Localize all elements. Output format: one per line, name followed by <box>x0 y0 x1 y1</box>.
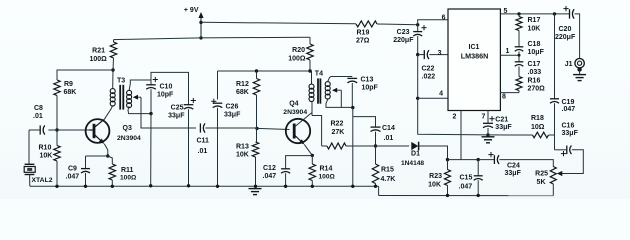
svg-text:4: 4 <box>439 91 443 98</box>
wire Q4 collector to T4 <box>295 101 312 126</box>
pin 1 label <box>506 48 510 55</box>
wire branch to C14 <box>353 117 376 127</box>
transformer T3 secondary coil <box>127 90 132 107</box>
wire Q4 emitter down <box>304 144 312 155</box>
svg-text:33μF: 33μF <box>224 112 241 119</box>
svg-text:Q3: Q3 <box>123 125 132 132</box>
svg-text:220μF: 220μF <box>393 37 414 44</box>
svg-text:10pF: 10pF <box>157 92 174 99</box>
wire T3 secondary top <box>129 80 151 90</box>
wire Q3 collector to T3 <box>104 106 112 120</box>
wire IC pin 8 to column <box>500 92 519 94</box>
svg-text:R12: R12 <box>236 81 249 88</box>
svg-text:100Ω: 100Ω <box>319 174 336 181</box>
wire R22 node to diode <box>380 145 409 147</box>
node Q4 emitter junction <box>311 154 314 157</box>
resistor R22 27K <box>322 121 380 150</box>
svg-text:T3: T3 <box>117 78 125 85</box>
pin 2 label <box>453 113 457 120</box>
svg-text:1N4148: 1N4148 <box>401 160 424 167</box>
resistor R17 10K <box>516 14 540 33</box>
wire detector bus <box>448 159 479 161</box>
node pin5-R17 junction <box>517 12 520 15</box>
svg-text:C12: C12 <box>263 165 276 172</box>
transformer T4 secondary coil <box>325 82 330 99</box>
capacitor C13 10pF <box>347 77 379 108</box>
svg-text:33μF: 33μF <box>562 130 579 137</box>
wire emitter to C12 <box>286 156 313 169</box>
wire rail step <box>378 186 380 195</box>
svg-text:C17: C17 <box>528 61 541 68</box>
wire Q3 emitter down <box>104 144 108 156</box>
node R23 junction <box>446 158 449 161</box>
svg-text:C14: C14 <box>382 125 395 132</box>
svg-text:R18: R18 <box>531 115 544 122</box>
node C13 bottom junction <box>351 106 354 109</box>
svg-text:C25: C25 <box>171 105 184 112</box>
potentiometer R25 5K <box>535 167 556 196</box>
ground symbol main rail <box>249 189 262 195</box>
capacitor C24 33uF <box>478 152 521 177</box>
resistor R13 10K <box>236 128 259 186</box>
transformer T3 primary coil <box>110 89 115 106</box>
svg-text:5K: 5K <box>537 179 546 186</box>
svg-text:C21: C21 <box>495 116 508 123</box>
svg-text:220μF: 220μF <box>555 34 576 41</box>
svg-text:R23: R23 <box>429 173 442 180</box>
node Q3 emitter junction <box>106 154 109 157</box>
svg-text:C15: C15 <box>460 174 473 181</box>
pin 5 label <box>504 8 508 15</box>
wire C10 node to rail <box>150 114 152 186</box>
capacitor C22 .022 <box>418 50 448 80</box>
node rail C13 <box>351 185 354 188</box>
wire T4 secondary top <box>328 77 347 82</box>
wire R21 to T3 primary top <box>112 58 115 89</box>
capacitor C11 .01 <box>197 123 258 155</box>
jack J1 <box>565 59 585 75</box>
capacitor C17 .033 <box>515 55 542 76</box>
capacitor C26 33uF <box>211 99 241 187</box>
svg-text:C8: C8 <box>34 105 43 112</box>
wire Q4 base <box>257 128 290 129</box>
diode D1 1N4148 <box>401 142 424 167</box>
node rail C12 <box>284 185 287 188</box>
tap arrow T4 <box>332 88 341 93</box>
svg-text:10K: 10K <box>40 153 53 160</box>
node rail C25 <box>187 184 190 187</box>
svg-text:R22: R22 <box>331 121 344 128</box>
wire pin5 node down to C19 <box>554 14 556 99</box>
wire IC pin 1 to column <box>500 54 520 57</box>
svg-text:10Ω: 10Ω <box>531 124 545 131</box>
pin 6 label <box>442 15 446 22</box>
transformer T4 label <box>315 71 323 78</box>
wire R18 to C19 column <box>549 134 555 136</box>
node rail R15 <box>374 185 377 188</box>
svg-text:7: 7 <box>482 113 486 120</box>
wire supply to R12 R20 <box>218 70 311 72</box>
svg-text:LM386N: LM386N <box>461 51 489 60</box>
wire IC pin 7 down <box>487 110 489 112</box>
transformer T3 label <box>117 78 125 85</box>
svg-text:R15: R15 <box>381 166 394 173</box>
resistor R20 100ohm <box>288 37 313 71</box>
svg-text:R10: R10 <box>39 145 52 152</box>
resistor R11 100ohm <box>108 156 137 186</box>
transformer T3 core <box>120 85 123 110</box>
wire bottom right ground rail <box>379 195 554 197</box>
transformer T4 core <box>318 78 320 103</box>
wire pin4 column <box>417 55 419 99</box>
svg-text:2N3904: 2N3904 <box>283 109 307 116</box>
node rail R14 <box>311 185 314 188</box>
svg-text:C24: C24 <box>507 163 520 170</box>
svg-text:C18: C18 <box>528 41 541 48</box>
svg-text:R25: R25 <box>535 170 548 177</box>
wire second supply rail <box>114 37 311 39</box>
wire R9 top <box>57 70 113 80</box>
node +9V supply arrow <box>184 7 204 38</box>
node C23 top junction <box>416 23 419 26</box>
svg-text:.047: .047 <box>562 106 576 113</box>
svg-text:.047: .047 <box>66 173 80 180</box>
capacitor C9 .047 <box>66 156 91 186</box>
svg-text:27Ω: 27Ω <box>356 37 370 44</box>
svg-text:XTAL2: XTAL2 <box>32 177 53 184</box>
resistor R10 10K <box>39 130 61 186</box>
resistor R9 68K <box>54 80 77 96</box>
svg-text:8: 8 <box>502 94 506 101</box>
wire C19 to C16 junction <box>554 135 556 150</box>
pin 4 label <box>439 91 443 98</box>
svg-text:C10: C10 <box>160 84 173 91</box>
node R9 junction <box>111 68 114 71</box>
svg-text:T4: T4 <box>315 71 323 78</box>
svg-text:100Ω: 100Ω <box>288 56 306 63</box>
node rail R13 <box>254 185 257 188</box>
svg-text:27K: 27K <box>332 129 345 136</box>
wire C24 to R25 <box>499 160 553 167</box>
capacitor C21 33uF <box>483 111 512 135</box>
resistor R18 10ohm <box>531 115 549 138</box>
wire bottom left ground rail <box>30 185 379 187</box>
capacitor C10 10pF <box>146 77 174 114</box>
svg-text:R14: R14 <box>320 166 333 173</box>
wire T4 primary top <box>311 71 312 84</box>
svg-text:C19: C19 <box>562 99 575 106</box>
crystal XTAL2 <box>24 164 53 184</box>
node rail R10 <box>55 185 58 188</box>
node Q3 base junction <box>55 128 58 131</box>
svg-text:R17: R17 <box>528 17 541 24</box>
wire R9 to base node <box>56 96 58 131</box>
node rail C10 <box>149 184 152 187</box>
node C15 junction <box>477 158 480 161</box>
wire R19 to C23 node <box>377 23 418 26</box>
svg-text:68K: 68K <box>64 89 77 96</box>
svg-text:100Ω: 100Ω <box>120 175 137 182</box>
svg-text:10K: 10K <box>528 26 541 33</box>
svg-text:.047: .047 <box>459 184 473 191</box>
svg-text:Q4: Q4 <box>289 101 298 108</box>
wire top +9V rail to R19 <box>201 22 356 24</box>
svg-text:33μF: 33μF <box>495 124 512 131</box>
wire emitter to C9 <box>86 155 108 157</box>
svg-text:C23: C23 <box>397 29 410 36</box>
node +9V top-rail junction <box>199 21 202 24</box>
resistor R12 68K <box>236 71 260 128</box>
wire C10 top to C25 <box>151 72 189 104</box>
svg-text:.01: .01 <box>384 135 394 142</box>
svg-text:33μF: 33μF <box>168 113 185 120</box>
ground at C21 <box>482 137 495 143</box>
wire C16 to R25 wiper <box>560 150 584 174</box>
resistor R23 10K <box>428 160 450 196</box>
wire C26 top corner <box>217 71 219 100</box>
svg-text:10μF: 10μF <box>528 49 545 56</box>
node rail C9 <box>84 185 87 188</box>
svg-text:6: 6 <box>442 15 446 22</box>
capacitor C18 10uF <box>515 31 545 57</box>
wire Q3 base <box>57 129 89 131</box>
wire IC pin 5 to output node <box>500 13 569 15</box>
ground at J1 <box>573 75 586 81</box>
pin 7 label <box>482 113 486 120</box>
capacitor C16 33uF <box>555 123 579 157</box>
capacitor C14 .01 <box>371 125 395 146</box>
svg-text:C13: C13 <box>361 77 374 84</box>
capacitor C23 220uF <box>393 25 426 44</box>
svg-text:2: 2 <box>453 113 457 120</box>
node pin4 junction <box>416 97 419 100</box>
wire crystal to rail <box>29 175 31 187</box>
node pin5-C19 junction <box>553 12 556 15</box>
svg-text:10K: 10K <box>236 152 249 159</box>
node C21 ground junction <box>486 133 489 136</box>
svg-text:3: 3 <box>438 50 442 57</box>
node rail C26 <box>216 185 219 188</box>
svg-text:.01: .01 <box>198 148 208 155</box>
capacitor C8 .01 <box>29 105 57 135</box>
svg-text:C26: C26 <box>226 104 239 111</box>
wire T4 tap down <box>340 90 342 107</box>
op-amp U IC1 LM386N <box>448 9 500 111</box>
capacitor C20 220uF <box>555 6 576 41</box>
svg-text:10pF: 10pF <box>362 85 379 92</box>
wire ground bus to R18 <box>488 134 533 136</box>
node rail R23 <box>446 194 449 197</box>
node R20 bottom <box>308 69 311 72</box>
svg-text:R13: R13 <box>236 144 249 151</box>
capacitor C12 .047 <box>263 165 291 187</box>
svg-text:2N3904: 2N3904 <box>117 135 141 142</box>
pin 3 label <box>438 50 442 57</box>
wire C8 to crystal <box>28 130 30 164</box>
svg-text:.01: .01 <box>33 113 43 120</box>
resistor R19 <box>356 21 377 44</box>
transformer T4 primary coil <box>309 84 314 101</box>
wire T3 secondary bottom <box>128 106 151 113</box>
svg-text:+ 9V: + 9V <box>184 7 199 14</box>
wire T4 secondary bottom <box>326 99 353 107</box>
svg-text:4.7K: 4.7K <box>381 176 396 183</box>
wire C23 to pin3 node <box>417 36 419 55</box>
wire collector branch to R22 <box>312 116 322 147</box>
wire D1 to R23 corner <box>419 146 448 160</box>
svg-text:R20: R20 <box>292 47 305 54</box>
wire T3 tap down to C11 <box>141 97 196 128</box>
capacitor C25 33uF <box>168 98 196 186</box>
node C14 bottom junction <box>374 144 377 147</box>
svg-text:R9: R9 <box>64 81 73 88</box>
svg-text:68K: 68K <box>236 89 249 96</box>
wire C20 to jack J1 <box>575 14 580 58</box>
svg-text:10K: 10K <box>428 181 441 188</box>
svg-text:J1: J1 <box>565 61 573 68</box>
capacitor C19 .047 <box>550 99 575 135</box>
svg-text:270Ω: 270Ω <box>528 86 546 93</box>
svg-text:C20: C20 <box>559 26 572 33</box>
capacitor C15 .047 <box>459 160 483 196</box>
wire node to IC pin 6 <box>418 20 448 25</box>
svg-text:33μF: 33μF <box>505 170 522 177</box>
node Q4 base junction <box>255 127 258 130</box>
svg-text:1: 1 <box>506 48 510 55</box>
resistor R15 4.7K <box>372 146 395 186</box>
pin 8 label <box>502 94 506 101</box>
svg-text:IC1: IC1 <box>469 44 480 51</box>
resistor R21 100ohm <box>90 40 117 63</box>
wire node to IC pin 4 <box>418 97 448 99</box>
svg-text:C16: C16 <box>562 123 575 130</box>
svg-text:R11: R11 <box>121 167 134 174</box>
resistor R14 100ohm <box>309 155 335 186</box>
node +9V second-rail junction <box>199 36 202 39</box>
svg-text:100Ω: 100Ω <box>90 56 108 63</box>
svg-text:.033: .033 <box>528 69 542 76</box>
node rail R11 <box>111 185 114 188</box>
svg-text:.047: .047 <box>263 173 277 180</box>
svg-text:C11: C11 <box>197 138 210 145</box>
wire pin4 column to ground bus <box>418 98 488 135</box>
node pin3 junction <box>416 53 419 56</box>
svg-text:R16: R16 <box>528 78 541 85</box>
transistor Q3 2N3904 <box>86 119 141 144</box>
svg-text:.022: .022 <box>422 73 436 80</box>
wire C13 node to rail <box>352 108 354 187</box>
wiper arrow R25 <box>557 171 563 176</box>
svg-text:C9: C9 <box>68 165 77 172</box>
svg-text:R21: R21 <box>92 47 105 54</box>
node C10 bottom junction <box>149 112 152 115</box>
node rail C15 <box>477 194 480 197</box>
wire IC pin 2 down <box>460 111 462 160</box>
svg-text:C22: C22 <box>422 65 435 72</box>
svg-text:R19: R19 <box>357 30 370 37</box>
tap arrow T3 <box>133 95 141 100</box>
resistor R16 270ohm <box>516 77 545 93</box>
transistor Q4 2N3904 <box>283 101 310 145</box>
node R12 top <box>255 69 258 72</box>
svg-text:D1: D1 <box>411 150 420 157</box>
